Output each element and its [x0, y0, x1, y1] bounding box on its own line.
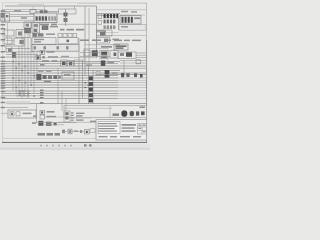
wire vertical risers left mesh: [8, 22, 38, 98]
relay K6 dark body: [24, 28, 30, 33]
lower box inner line: [64, 107, 112, 109]
connector X4 hatched: [120, 16, 141, 25]
wire y35.4 right span: [97, 34, 147, 36]
wire y74.5 right: [96, 74, 147, 76]
module box with text rows: [32, 38, 56, 45]
lower box partition: [109, 105, 111, 117]
wire bus comb lower: [1, 83, 147, 104]
border frame bottom: [2, 141, 147, 143]
page margin band below border: [0, 143, 150, 150]
wire y9.8 top right: [97, 9, 147, 11]
tick marks on comb x40: [40, 90, 44, 104]
strip C1 pin marks: [34, 46, 69, 49]
wire y16.2: [9, 15, 34, 17]
lower-left connector box wide: [8, 110, 36, 118]
terminal strip column dark: [89, 66, 93, 104]
small chain y129-136 center: [62, 129, 89, 134]
wire bus comb middle: [1, 62, 147, 81]
connector hatched right y52: [118, 52, 136, 59]
label text y46 right-center: [101, 46, 112, 48]
wire y117 lower: [44, 116, 64, 118]
right comb y60-64: [120, 61, 147, 63]
switch S1 dark: [101, 60, 106, 66]
connector X2 dark pair: [40, 11, 43, 14]
relay cluster enclosure: [84, 49, 108, 63]
fold mark b: [89, 144, 92, 146]
module box B dot: [67, 40, 70, 43]
inline component chain y75-79: [37, 74, 61, 79]
label row far right y39: [114, 40, 141, 42]
wire top drop at x44: [44, 6, 46, 11]
wire y14.5: [9, 14, 34, 16]
wire vertical x124 right: [123, 60, 125, 74]
wire top bus: [5, 5, 97, 7]
wire y122 center-low: [58, 121, 96, 123]
fuse box F1: [34, 13, 57, 23]
wire y118 center-low: [70, 117, 92, 119]
wire vertical x36.5 low: [36, 104, 38, 123]
label text right of K9: [50, 26, 58, 28]
relay column R1 dark contacts upper: [64, 13, 68, 17]
wire vertical x89: [88, 8, 90, 66]
border frame bottom faint inner line: [2, 138, 98, 140]
label under relay cluster: [86, 64, 92, 66]
label text y64: [40, 64, 45, 66]
wire comb mid-left: [6, 41, 40, 58]
wire y113 left stub: [1, 112, 8, 114]
module M5 dark insert: [8, 48, 12, 52]
switch S2 dark: [105, 70, 110, 78]
label text y70 pair: [38, 70, 52, 72]
relay column R1 dark contacts lower: [64, 18, 68, 22]
title bottom text row: [99, 136, 142, 137]
page bottom edge shading: [0, 148, 150, 150]
title block outer: [96, 120, 147, 140]
wire verticals center low: [58, 68, 62, 111]
dense overlap band left-low: [16, 90, 30, 96]
wire top drop at x74: [74, 6, 76, 14]
inline chain right y73-77: [121, 73, 143, 77]
border frame right upper: [146, 3, 148, 40]
wire vertical x66 low: [65, 98, 67, 111]
module M4: [14, 38, 24, 46]
connector pin row 3: [104, 25, 116, 29]
connector pin row 2: [104, 20, 116, 24]
device row y56: [36, 55, 69, 59]
relay K7 contact lower: [34, 29, 38, 32]
label left of connector: [14, 10, 21, 12]
small box row x58-76: [58, 33, 77, 37]
wire y20: [1, 19, 34, 21]
wire verticals x79-84: [79, 38, 83, 104]
wire y44.8 right of center: [84, 44, 120, 46]
lower chain y120-127: [32, 121, 76, 126]
wire vertical x118.5: [118, 13, 120, 30]
device row y51: [40, 51, 55, 55]
switch S2 label: [112, 72, 118, 74]
connector pin row 1 dark: [104, 14, 119, 18]
relay K3: [5, 13, 9, 22]
long connector strip C1: [32, 45, 79, 52]
relay K9 dark: [42, 26, 48, 30]
wire stubs right edge y53-57: [136, 53, 147, 57]
wire relay column stem: [65, 9, 67, 26]
fuse cells light: [48, 16, 56, 20]
control unit label: [64, 74, 71, 76]
label text y39 center-right: [80, 39, 111, 41]
label mid y17: [21, 17, 27, 19]
junction block dark: [12, 52, 16, 58]
zone tick labels below border: [40, 145, 72, 147]
label text pair right of terminal box: [76, 113, 85, 121]
faded wash over right comb: [118, 77, 146, 103]
left label column mid: [1, 33, 6, 108]
title panel bullets: [98, 123, 101, 132]
wire y15.5 right: [97, 15, 119, 17]
strip pin right: [76, 46, 79, 49]
sensor pair boxes x40 y110: [33, 110, 56, 119]
connector X3 small: [98, 14, 102, 19]
connector X1: [30, 10, 36, 14]
wire y32.5 under pin rows: [97, 32, 119, 34]
module M1: [4, 30, 14, 36]
wire y52.5 right: [80, 52, 100, 54]
ECU box text: [116, 45, 127, 48]
title right table: [138, 124, 147, 134]
wire y107 left: [6, 106, 28, 108]
title block white panel: [98, 122, 120, 134]
small box x96 y71.6: [96, 72, 100, 76]
wire y15 far right: [120, 14, 145, 16]
wire y13.5 right: [97, 13, 121, 15]
pin dash column: [71, 112, 74, 120]
wire vertical x85: [84, 7, 86, 77]
wire upper feed y11: [1, 11, 58, 13]
module box text rows: [34, 39, 44, 43]
wire y102 left: [6, 101, 30, 103]
terminal box tall: [64, 111, 70, 122]
label above X4: [121, 11, 137, 13]
wire y57 center: [40, 57, 96, 59]
relay K5 contact: [26, 24, 29, 27]
junction box J1: [59, 9, 77, 14]
label text row y29 center: [60, 29, 84, 31]
switch S1 label: [108, 62, 115, 64]
connector X4 bars: [122, 17, 133, 23]
wire top drop at x96: [96, 6, 98, 58]
node label column left top: [1, 10, 6, 29]
lamp cluster chain right: [113, 110, 145, 116]
wire y24 center: [58, 23, 96, 25]
fuse cells dark: [36, 16, 48, 20]
label under pin rows: [97, 30, 106, 32]
relay K7 contact upper: [34, 24, 39, 27]
control unit box center: [62, 72, 74, 80]
faint top line right: [77, 3, 147, 5]
relay K1 dark body: [1, 13, 4, 17]
relay K7: [32, 22, 40, 33]
lower big box outline: [64, 105, 147, 117]
border frame left: [1, 3, 3, 142]
connector X4 label: [134, 17, 140, 19]
text above comb center: [44, 81, 51, 82]
label text under fuse box: [40, 24, 57, 26]
fold marks below border: [84, 144, 87, 146]
title center text rows: [122, 124, 137, 132]
title panel text rows: [100, 123, 118, 132]
wire y56.5 right: [80, 55, 110, 57]
relay K3 contact: [6, 15, 8, 17]
module M3: [4, 38, 12, 44]
relay K5: [24, 22, 31, 28]
terminal box cells: [65, 112, 68, 119]
module M2 dark insert: [18, 32, 22, 36]
ECU box right: [114, 44, 128, 50]
connector X2b dark: [44, 11, 47, 14]
wire y22: [1, 21, 40, 23]
label text y60 center: [42, 60, 58, 62]
relay cluster center-right: [84, 50, 118, 59]
relay K2: [1, 18, 4, 22]
dark text cluster x32 y33: [32, 33, 55, 37]
wire top drop at x33: [32, 6, 34, 10]
connector X3b small: [98, 21, 102, 25]
module M4 dark insert: [20, 40, 24, 44]
border frame right: [146, 40, 148, 143]
small box far right y60: [136, 60, 141, 64]
module M2: [16, 30, 30, 38]
wire y103.6 left extension: [6, 103, 30, 105]
wide box under X4: [119, 25, 146, 31]
module box B right: [58, 38, 78, 44]
border frame top: [2, 2, 147, 4]
junction smudges mesh: [12, 61, 89, 97]
cluster top-center-left boxes y60-66: [61, 60, 83, 66]
wire top stub y4: [18, 3, 44, 5]
wide box label: [121, 26, 128, 28]
wire y9.3: [2, 8, 46, 10]
module boxes right-center y30-43: [97, 30, 120, 43]
small label left of title block: [90, 121, 96, 133]
label above chain: [140, 106, 146, 108]
caption text row bottom-left: [38, 133, 61, 136]
module M5: [6, 46, 12, 52]
